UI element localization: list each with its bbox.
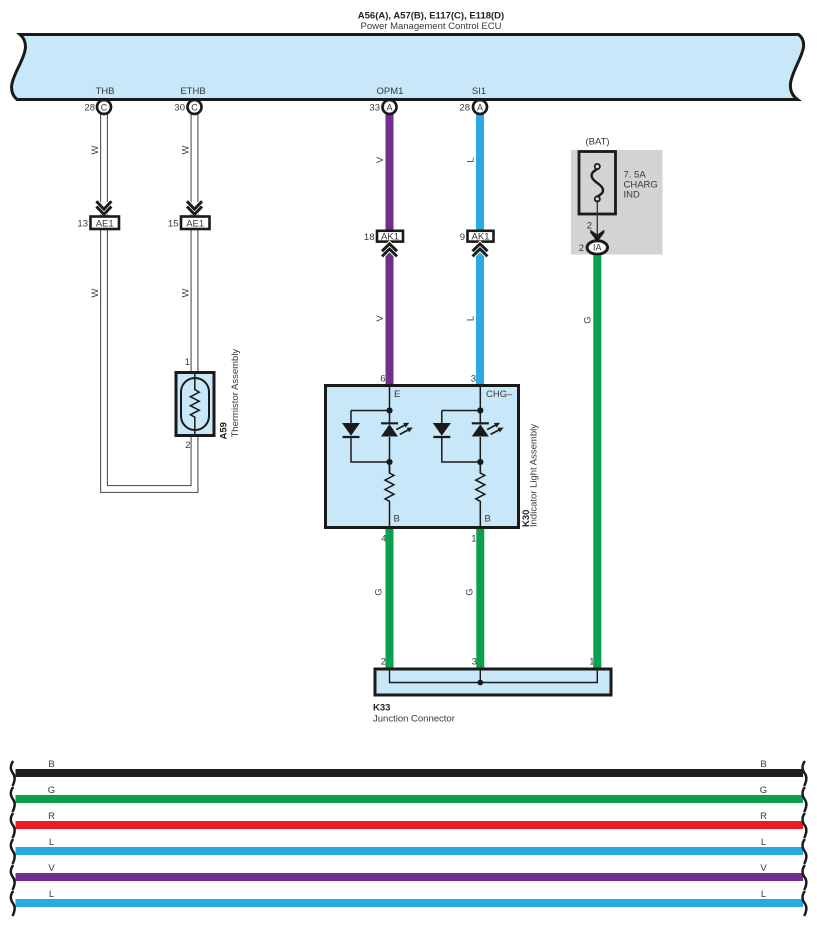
wire G from IA to K33 pin 1 — [593, 255, 601, 668]
pin 28 circle A (SI1) — [459, 100, 487, 114]
wire W from THB (upper stub) — [100, 112, 108, 216]
svg-text:A: A — [477, 102, 483, 112]
fuse pin 2 lead — [596, 200, 598, 239]
svg-text:B: B — [48, 759, 54, 770]
chevron below AK1 (18) — [382, 244, 397, 257]
svg-text:SI1: SI1 — [472, 86, 486, 97]
connector 13 AE1 — [77, 217, 119, 230]
svg-text:OPM1: OPM1 — [377, 86, 404, 97]
svg-text:C: C — [191, 102, 198, 112]
pin 30 circle C (ETHB) — [174, 100, 201, 114]
wire W from ETHB (upper stub) — [191, 112, 199, 216]
svg-text:W: W — [90, 145, 101, 154]
svg-text:2: 2 — [381, 657, 386, 668]
svg-text:Indicator Light Assembly: Indicator Light Assembly — [529, 424, 540, 527]
ECU band (Power Management Control ECU) — [12, 35, 804, 100]
svg-text:B: B — [485, 514, 491, 525]
bottom harness wire L — [11, 837, 806, 864]
svg-text:THB: THB — [96, 86, 115, 97]
svg-text:9: 9 — [460, 232, 465, 243]
connector 18 AK1 — [364, 231, 403, 243]
indicator light assembly K30 box — [326, 386, 519, 528]
wire W from AE1-15 to A59 pin 1 — [191, 230, 199, 373]
chevron into AE1 (15) — [187, 201, 202, 214]
junction connector K33 box — [375, 669, 611, 695]
svg-text:L: L — [466, 316, 477, 321]
svg-text:IA: IA — [593, 243, 602, 253]
fuse 7.5A CHARG IND box — [579, 152, 616, 215]
LED circuit 2 — [433, 387, 499, 527]
svg-text:B: B — [394, 514, 400, 525]
svg-text:AK1: AK1 — [472, 231, 490, 242]
fuse block gray background — [571, 150, 663, 255]
svg-text:AE1: AE1 — [96, 219, 114, 230]
svg-text:V: V — [375, 156, 386, 163]
svg-text:Power Management Control ECU: Power Management Control ECU — [361, 21, 502, 32]
svg-text:1: 1 — [589, 657, 594, 668]
thermistor assembly A59 box — [176, 373, 214, 436]
svg-text:3: 3 — [472, 657, 477, 668]
svg-text:G: G — [583, 316, 594, 323]
svg-text:2: 2 — [579, 243, 584, 254]
K33 bus junction dot — [477, 680, 483, 686]
svg-text:E: E — [394, 389, 400, 400]
pin 28 circle C (THB) — [84, 100, 111, 114]
svg-text:Thermistor Assembly: Thermistor Assembly — [230, 349, 241, 438]
svg-text:ETHB: ETHB — [180, 86, 205, 97]
thermistor capsule — [181, 378, 209, 430]
svg-text:V: V — [760, 863, 767, 874]
wire V from AK1 to K30 pin 6 — [386, 247, 394, 387]
svg-text:CHG–: CHG– — [486, 389, 513, 400]
bottom harness wire R — [11, 811, 806, 838]
fuse element — [592, 164, 604, 202]
bottom harness wire B — [11, 759, 806, 786]
svg-text:W: W — [90, 288, 101, 297]
svg-text:2: 2 — [587, 221, 592, 232]
svg-text:L: L — [49, 889, 54, 900]
chevron into AE1 (13) — [96, 201, 111, 214]
svg-text:1: 1 — [471, 534, 476, 545]
svg-text:R: R — [760, 811, 767, 822]
thermistor resistor zigzag — [190, 374, 199, 434]
svg-text:(BAT): (BAT) — [585, 137, 609, 148]
LED circuit 1 — [343, 387, 409, 527]
svg-text:G: G — [760, 785, 767, 796]
K33 internal bus — [390, 669, 598, 683]
svg-text:IND: IND — [624, 190, 641, 201]
svg-text:30: 30 — [174, 103, 185, 114]
svg-text:B: B — [760, 759, 766, 770]
svg-text:G: G — [48, 785, 55, 796]
wire V from OPM1 (upper) — [386, 112, 394, 230]
svg-text:3: 3 — [471, 374, 476, 385]
svg-text:G: G — [465, 588, 476, 595]
connector 15 AE1 — [168, 217, 210, 230]
svg-text:28: 28 — [84, 103, 95, 114]
bottom harness wire L2 — [11, 889, 806, 916]
svg-text:V: V — [48, 863, 55, 874]
svg-text:L: L — [466, 157, 477, 162]
svg-text:15: 15 — [168, 219, 179, 230]
svg-text:C: C — [101, 102, 108, 112]
svg-text:G: G — [374, 588, 385, 595]
svg-text:L: L — [761, 837, 766, 848]
bottom harness wire G — [11, 785, 806, 812]
svg-text:W: W — [181, 288, 192, 297]
ECU title text — [358, 11, 504, 32]
svg-text:W: W — [181, 145, 192, 154]
svg-text:18: 18 — [364, 232, 375, 243]
arrow into IA — [590, 230, 604, 242]
pin 33 circle A (OPM1) — [369, 100, 396, 114]
connector 2 IA — [579, 241, 608, 254]
svg-text:Junction Connector: Junction Connector — [373, 714, 455, 725]
connector 9 AK1 — [460, 231, 494, 243]
svg-text:AK1: AK1 — [381, 231, 399, 242]
svg-text:R: R — [48, 811, 55, 822]
bottom harness wire V — [11, 863, 806, 890]
wire G from K30 pin 1 to K33 pin 3 — [476, 529, 484, 668]
svg-text:L: L — [49, 837, 54, 848]
wire G from K30 pin 4 to K33 pin 2 — [386, 529, 394, 668]
svg-text:V: V — [375, 315, 386, 322]
svg-text:13: 13 — [77, 219, 88, 230]
svg-text:A: A — [386, 102, 392, 112]
svg-text:K33: K33 — [373, 703, 390, 714]
svg-text:33: 33 — [369, 103, 380, 114]
chevron below AK1 (9) — [473, 244, 488, 257]
svg-text:28: 28 — [459, 103, 470, 114]
svg-text:6: 6 — [380, 374, 385, 385]
wire W from AE1-13 loop to A59 pin 2 — [104, 230, 195, 490]
svg-text:L: L — [761, 889, 766, 900]
wire L from SI1 (upper) — [476, 112, 484, 230]
svg-text:2: 2 — [185, 440, 190, 451]
svg-text:AE1: AE1 — [186, 219, 204, 230]
wire L from AK1 to K30 pin 3 — [476, 247, 484, 387]
svg-text:1: 1 — [185, 357, 190, 368]
svg-text:A59: A59 — [219, 422, 230, 439]
